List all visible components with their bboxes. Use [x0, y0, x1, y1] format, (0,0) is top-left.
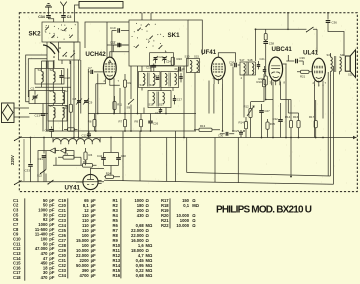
- resistor R13: [199, 128, 212, 131]
- resistor R17: [314, 121, 317, 128]
- capacitor C22: [263, 70, 266, 72]
- coil S6: [63, 108, 65, 119]
- coupling coil box: [187, 59, 200, 73]
- capacitor C20: [235, 63, 237, 68]
- resistor R5: [68, 128, 75, 131]
- trimmer C8: [77, 101, 81, 103]
- svg-text:S17: S17: [240, 58, 245, 62]
- resistor R15: [266, 122, 269, 129]
- switch SK2 box: [42, 22, 78, 42]
- svg-text:C37: C37: [45, 129, 51, 133]
- RF box edge: [85, 22, 129, 58]
- switch S22: [41, 170, 47, 174]
- svg-text:C11: C11: [110, 41, 116, 45]
- svg-text:R13: R13: [200, 124, 206, 128]
- wire band wires: [46, 42, 81, 138]
- coil S4: [63, 93, 65, 104]
- svg-text:R16: R16: [259, 77, 265, 81]
- wire grid return 2: [28, 59, 47, 97]
- svg-text:C39: C39: [300, 56, 306, 60]
- padder box: [150, 53, 174, 66]
- wire AF return: [104, 66, 334, 184]
- padder trimmer C23: [154, 58, 158, 60]
- mains switch pole1: [15, 137, 22, 141]
- wire SK1 top ext: [188, 20, 202, 55]
- capacitor C16: [179, 77, 182, 79]
- svg-text:C29: C29: [234, 129, 240, 133]
- svg-text:C10: C10: [110, 26, 116, 30]
- capacitor C32: [278, 120, 283, 122]
- tube UY41: [83, 174, 98, 189]
- capacitor C40: [116, 158, 121, 160]
- svg-text:S19: S19: [327, 53, 332, 57]
- resistor R14b: [244, 122, 247, 129]
- tube UCH42: [103, 57, 116, 79]
- output transformer S19: [331, 57, 333, 71]
- wire UF41 anode: [218, 53, 235, 63]
- svg-text:R14: R14: [239, 121, 245, 125]
- wire mains2: [19, 181, 104, 183]
- svg-text:UL41: UL41: [303, 50, 319, 57]
- capacitor C12: [87, 134, 91, 136]
- svg-text:S2: S2: [50, 68, 54, 72]
- wire AVC bus: [88, 113, 196, 115]
- tube UF41: [211, 57, 225, 80]
- chassis dashed border: [19, 13, 357, 192]
- capacitor C19: [152, 65, 157, 67]
- svg-text:R7: R7: [119, 120, 123, 124]
- capacitor C39: [296, 59, 298, 64]
- coil S14: [175, 74, 177, 85]
- svg-text:pF: pF: [91, 273, 97, 278]
- capacitor C15: [156, 78, 159, 80]
- svg-text:C34: C34: [58, 273, 66, 278]
- svg-text:C24: C24: [166, 60, 171, 64]
- capacitor C18: [159, 110, 162, 112]
- svg-text:C33: C33: [25, 169, 31, 173]
- capacitor C33: [30, 138, 32, 164]
- mains switch pole2: [15, 181, 22, 185]
- wire HT return: [186, 138, 188, 173]
- resistor R4: [84, 152, 87, 160]
- IFT low box: [148, 91, 171, 108]
- svg-text:R24: R24: [106, 172, 112, 176]
- trimmer C2: [33, 96, 38, 98]
- capacitor C7a: [119, 43, 121, 47]
- svg-text:C3: C3: [67, 15, 72, 19]
- svg-text:SK2: SK2: [29, 31, 42, 38]
- svg-text:R3: R3: [83, 160, 87, 164]
- svg-text:C18: C18: [155, 111, 161, 115]
- IFT2 core: [247, 63, 249, 75]
- resistor R1: [63, 156, 74, 160]
- svg-text:R17: R17: [309, 115, 315, 119]
- wire det drops: [184, 64, 291, 138]
- svg-text:C40: C40: [121, 154, 127, 158]
- svg-text:C15: C15: [154, 74, 160, 78]
- wire frame antenna to coils: [14, 108, 30, 117]
- svg-text:R22: R22: [161, 223, 169, 228]
- svg-text:C12: C12: [82, 134, 88, 138]
- wire UL41 pins: [315, 85, 323, 138]
- dial lamp L2: [61, 148, 67, 153]
- coil S18: [244, 64, 246, 75]
- capacitor C14: [179, 67, 181, 72]
- svg-text:C13: C13: [35, 114, 41, 118]
- svg-text:R21: R21: [300, 75, 306, 79]
- svg-text:C42: C42: [97, 154, 103, 158]
- output transformer S20: [340, 57, 342, 71]
- switch S23: [48, 180, 54, 184]
- svg-text:C26: C26: [153, 122, 159, 126]
- svg-text:C34: C34: [38, 15, 45, 19]
- wire cathode bus: [46, 130, 199, 132]
- resistor R11: [113, 102, 116, 110]
- wire antenna feed: [75, 5, 80, 22]
- wire SK1 feeds: [142, 13, 151, 20]
- resistor R18: [264, 34, 267, 41]
- svg-text:UF41: UF41: [201, 49, 217, 56]
- capacitor C28: [59, 76, 63, 78]
- resistor R10: [262, 80, 265, 87]
- tube UL41: [312, 58, 325, 82]
- svg-text:0,1: 0,1: [183, 203, 189, 208]
- svg-text:R1: R1: [65, 152, 69, 156]
- coil S13: [165, 74, 167, 85]
- parts table C19-C34: [67, 198, 69, 278]
- wire OT: [187, 71, 340, 176]
- svg-text:S10: S10: [185, 55, 190, 59]
- svg-text:R4: R4: [89, 153, 93, 157]
- capacitor C31: [43, 138, 45, 154]
- capacitor C26: [148, 121, 153, 123]
- junction dots: [73, 137, 75, 139]
- IFT1b box: [161, 72, 179, 88]
- switch SK1 box: [129, 20, 188, 66]
- switch SK3: [307, 27, 314, 32]
- svg-text:S11: S11: [140, 83, 145, 87]
- svg-text:C9: C9: [89, 101, 93, 105]
- potentiometer R12: [249, 109, 252, 118]
- svg-text:S18: S18: [248, 58, 253, 62]
- svg-text:C23: C23: [159, 55, 164, 59]
- svg-text:R15: R15: [270, 122, 276, 126]
- resistor R20: [171, 57, 174, 65]
- svg-text:PHILIPS MOD. BX210 U: PHILIPS MOD. BX210 U: [216, 204, 312, 215]
- svg-text:S17: S17: [159, 102, 164, 106]
- svg-text:UY41: UY41: [65, 185, 81, 192]
- earth terminal: [48, 7, 50, 13]
- SK2 wafer contacts: [47, 42, 70, 68]
- wire heater links: [46, 151, 81, 182]
- IFT1b core: [169, 73, 171, 87]
- svg-text:pF: pF: [49, 275, 55, 280]
- IFT1 core: [148, 73, 150, 87]
- capacitor C38: [265, 29, 267, 41]
- svg-text:S20: S20: [340, 53, 345, 57]
- wire B+ to IFT2: [255, 29, 257, 61]
- capacitor C21: [257, 65, 260, 67]
- svg-text:C38: C38: [269, 41, 275, 45]
- svg-text:R20: R20: [177, 57, 183, 61]
- coil S12: [153, 74, 155, 85]
- wire grid return 1: [26, 55, 47, 102]
- svg-text:C27: C27: [265, 109, 271, 113]
- svg-text:S9: S9: [127, 106, 131, 110]
- svg-text:UCH42: UCH42: [85, 51, 106, 58]
- svg-text:MΩ: MΩ: [192, 203, 199, 208]
- resistor R9: [139, 120, 142, 127]
- tube UBC41: [269, 57, 283, 81]
- resistor R6: [93, 120, 96, 127]
- rod antenna box: [79, 2, 123, 9]
- resistor R21: [301, 70, 310, 73]
- coil S3: [53, 93, 55, 104]
- dial lamp L1: [50, 148, 56, 153]
- switch link: [23, 139, 25, 181]
- svg-text:220V: 220V: [10, 155, 15, 165]
- coil S5: [53, 108, 55, 119]
- svg-text:C7: C7: [88, 66, 92, 70]
- frame antenna: [2, 103, 15, 123]
- loudspeaker: [345, 56, 350, 71]
- svg-text:S5: S5: [49, 104, 53, 108]
- wire UCH42 anode: [110, 52, 129, 57]
- IFT2 box: [240, 62, 256, 75]
- svg-text:C32: C32: [273, 117, 279, 121]
- capacitor C11: [118, 43, 120, 48]
- RF coil box: [29, 91, 65, 104]
- svg-text:R16: R16: [293, 115, 299, 119]
- coil S19: [252, 64, 254, 75]
- svg-text:C21: C21: [260, 57, 266, 61]
- resistor R22: [69, 104, 72, 112]
- capacitor C13: [41, 114, 46, 116]
- svg-text:C8: C8: [73, 97, 77, 101]
- wire earth bus: [19, 137, 356, 139]
- resistor R3: [83, 164, 93, 168]
- svg-text:R9: R9: [135, 120, 139, 124]
- aerial coil box: [35, 69, 64, 85]
- parts table C1-C18: [13, 198, 200, 281]
- svg-text:R6: R6: [88, 120, 92, 124]
- coil S2: [53, 72, 55, 83]
- wire HT rail: [256, 13, 318, 53]
- capacitor C29: [239, 132, 243, 134]
- svg-text:R22: R22: [63, 106, 69, 110]
- wire osc grid: [97, 74, 99, 114]
- resistor R7: [123, 120, 126, 127]
- capacitor C42: [101, 158, 106, 160]
- svg-text:S15: S15: [194, 55, 199, 59]
- svg-text:MΩ: MΩ: [146, 273, 153, 278]
- svg-text:S1: S1: [38, 68, 42, 72]
- svg-text:UBC41: UBC41: [272, 46, 293, 53]
- scan speckle: [24, 14, 356, 190]
- svg-text:10.000: 10.000: [176, 223, 189, 228]
- svg-text:R14: R14: [285, 115, 291, 119]
- trimmer C9: [84, 101, 88, 103]
- svg-text:430: 430: [137, 213, 145, 218]
- svg-text:S21: S21: [348, 73, 353, 77]
- svg-text:C30: C30: [218, 134, 224, 138]
- resistor R2: [123, 80, 126, 87]
- switch S9: [129, 99, 135, 104]
- SK2 wafer box: [59, 42, 81, 60]
- capacitor C10: [118, 28, 120, 33]
- wire IF drops: [106, 66, 173, 131]
- capacitor C30: [226, 132, 228, 136]
- heater chain: [53, 139, 100, 143]
- capacitor C7: [91, 70, 93, 74]
- svg-text:S16: S16: [149, 102, 154, 106]
- SK2 contacts: [54, 26, 55, 27]
- svg-text:C2: C2: [31, 87, 35, 91]
- svg-text:4700: 4700: [79, 273, 89, 278]
- svg-text:470: 470: [41, 275, 49, 280]
- coil S1: [42, 72, 44, 83]
- osc coil box: [48, 106, 67, 122]
- svg-text:C20: C20: [229, 61, 235, 65]
- coil S17: [163, 93, 165, 104]
- IFTlow core: [157, 92, 159, 107]
- capacitor C3: [63, 13, 65, 15]
- coil S16: [153, 93, 155, 104]
- svg-text:S12: S12: [150, 83, 155, 87]
- coil S10: [190, 61, 192, 72]
- resistor R24: [106, 175, 114, 178]
- resistor R16: [297, 121, 300, 128]
- svg-text:C18: C18: [13, 275, 21, 280]
- svg-text:C17: C17: [177, 98, 183, 102]
- wire coil links: [29, 61, 71, 114]
- resistor R16b: [264, 76, 267, 85]
- svg-text:R16: R16: [113, 273, 121, 278]
- wire UCH42 pins: [96, 84, 120, 131]
- coil S11: [143, 74, 145, 85]
- coil S15: [197, 61, 199, 72]
- capacitor C34: [48, 13, 50, 15]
- antenna terminal: [60, 2, 66, 13]
- capacitor C36: [327, 13, 329, 20]
- capacitor C17: [173, 99, 176, 101]
- wire UBC41 grid: [283, 55, 304, 65]
- resistor R14: [289, 121, 292, 128]
- parts table R17-R22: [169, 198, 171, 228]
- svg-text:0,68: 0,68: [136, 273, 145, 278]
- capacitor C37: [51, 127, 53, 129]
- svg-text:SK1: SK1: [168, 32, 181, 39]
- OT core: [334, 56, 336, 72]
- svg-text:C36: C36: [332, 21, 338, 25]
- parts table R1-R16: [120, 198, 122, 278]
- SK1 contacts: [146, 39, 147, 40]
- padder trimmer C24: [163, 58, 167, 60]
- IFT1 box: [139, 72, 161, 88]
- svg-text:S3: S3: [49, 89, 53, 93]
- capacitor C27: [259, 111, 264, 113]
